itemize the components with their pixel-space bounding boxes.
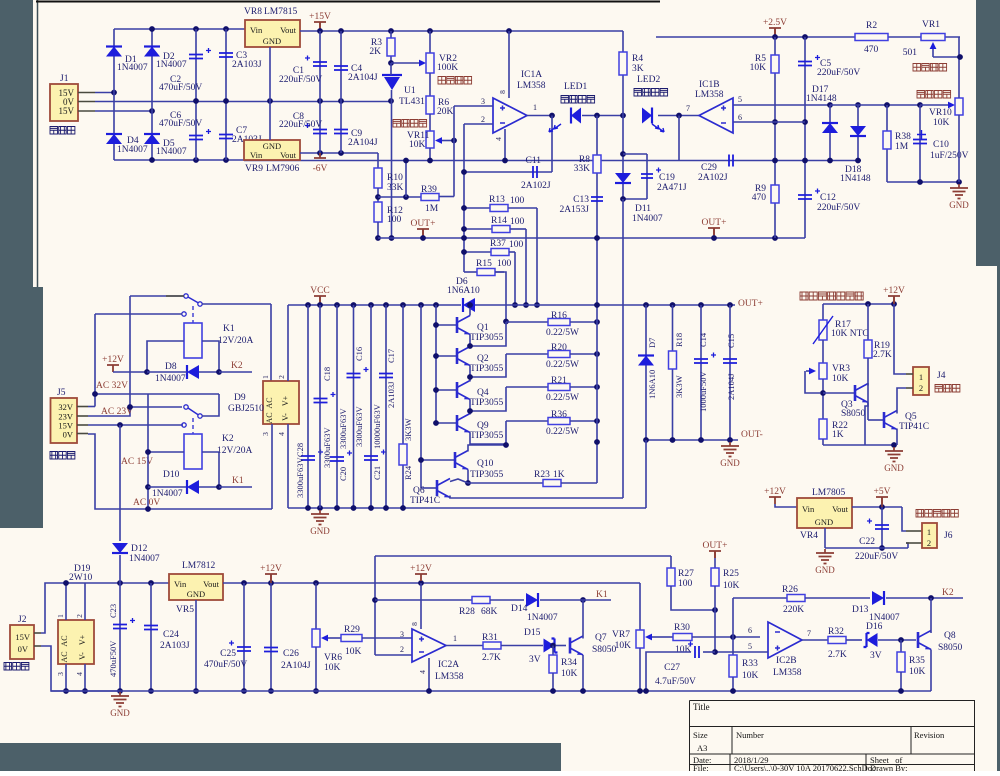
- net label K1 wire: [219, 486, 252, 488]
- svg-text:100: 100: [387, 215, 402, 225]
- svg-text:C20: C20: [338, 467, 348, 481]
- svg-text:K2: K2: [222, 434, 234, 444]
- svg-text:Title: Title: [693, 702, 710, 712]
- capacitor C5 220uF/50V: [804, 37, 806, 238]
- svg-text:V+: V+: [78, 634, 87, 645]
- potentiometer VR6 10K: [315, 583, 317, 629]
- capacitor C29 2A102J feedback: [678, 116, 680, 161]
- svg-text:2A102J: 2A102J: [698, 173, 728, 183]
- svg-text:7: 7: [807, 629, 811, 638]
- resistor R39 1M: [378, 196, 421, 198]
- svg-text:4: 4: [494, 137, 503, 141]
- svg-text:Vin: Vin: [174, 579, 187, 589]
- comment current-set: [438, 77, 472, 85]
- wire bridge left column: [113, 29, 115, 160]
- node R10-R12-R39: [377, 188, 379, 202]
- svg-text:220uF/50V: 220uF/50V: [855, 552, 898, 562]
- wire Q5 collector to J4 pin2: [897, 388, 906, 414]
- svg-text:C17: C17: [386, 349, 396, 363]
- svg-text:+5V: +5V: [874, 487, 891, 497]
- capacitor C1 220uF/50V: [319, 31, 321, 101]
- svg-text:R34: R34: [561, 658, 577, 668]
- wire Q4 collector: [469, 377, 471, 382]
- LED1 comment constant-current: [561, 96, 595, 104]
- svg-text:TL431: TL431: [399, 97, 425, 107]
- svg-text:Size: Size: [693, 730, 708, 740]
- wire +18V rail to LM7812: [85, 582, 169, 584]
- transistor Q2 TIP3055: [436, 355, 457, 357]
- resistor R25 10K: [714, 551, 716, 558]
- svg-text:TIP3055: TIP3055: [470, 431, 504, 441]
- wire OUT+ sense column: [596, 238, 598, 483]
- svg-text:470uF/50V: 470uF/50V: [204, 660, 247, 670]
- svg-text:2A104J: 2A104J: [281, 661, 311, 671]
- svg-text:+12V: +12V: [260, 564, 282, 574]
- svg-text:2A103J: 2A103J: [160, 641, 190, 651]
- svg-text:220uF/50V: 220uF/50V: [279, 75, 322, 85]
- pin 5 wire: [733, 104, 830, 106]
- svg-text:10K: 10K: [675, 645, 692, 655]
- diode D18 1N4148: [855, 102, 861, 108]
- resistor R4 3K: [622, 31, 624, 116]
- svg-text:C12: C12: [820, 193, 836, 203]
- op-amp IC1A LM358: [493, 98, 527, 133]
- svg-text:3: 3: [261, 432, 270, 436]
- capacitor C6 470uF/50V: [195, 101, 197, 160]
- svg-text:1N4148: 1N4148: [840, 174, 871, 184]
- svg-text:C24: C24: [163, 630, 179, 640]
- svg-text:V-: V-: [281, 413, 290, 421]
- svg-text:GND: GND: [815, 565, 835, 575]
- pin 4 supply wire: [504, 129, 506, 161]
- svg-text:Vout: Vout: [280, 150, 297, 160]
- svg-text:+2.5V: +2.5V: [763, 18, 787, 28]
- node R34 top: [550, 643, 556, 649]
- resistor R35 10K: [900, 640, 902, 652]
- power port +12V IC2A: [415, 574, 427, 581]
- wire R4 col down to D11: [622, 116, 624, 200]
- svg-text:OUT+: OUT+: [738, 299, 763, 309]
- wire VR9 Vout row -6V: [300, 152, 378, 154]
- capacitor C8 220uF/50V: [319, 101, 321, 153]
- svg-text:R16: R16: [551, 311, 567, 321]
- svg-text:+12V: +12V: [883, 286, 905, 296]
- wire Q4 emitter path: [470, 387, 506, 411]
- svg-text:-6V: -6V: [313, 164, 328, 174]
- svg-text:LM7906: LM7906: [266, 164, 300, 174]
- potentiometer VR11 10K: [429, 114, 431, 131]
- dark canvas region left: [0, 0, 43, 528]
- wire J5 32V pin: [77, 406, 88, 408]
- svg-text:4: 4: [418, 670, 427, 674]
- svg-text:2: 2: [75, 614, 84, 618]
- svg-text:2A104J: 2A104J: [726, 373, 736, 400]
- svg-text:2A471J: 2A471J: [657, 183, 687, 193]
- svg-text:33K: 33K: [387, 183, 404, 193]
- svg-text:2K: 2K: [369, 47, 381, 57]
- ground GND 7805: [816, 549, 834, 564]
- wire R13 col to rail: [536, 208, 538, 305]
- svg-text:R38: R38: [895, 132, 911, 142]
- svg-text:GND: GND: [949, 200, 969, 210]
- potentiometer VR3 10K: [822, 340, 824, 363]
- wire OUT- rail: [646, 439, 738, 441]
- svg-text:0.22/5W: 0.22/5W: [546, 360, 579, 370]
- wire K2 coil left: [148, 451, 184, 453]
- LED2 comment constant-voltage: [634, 89, 668, 97]
- wire OUT+ rail upper: [475, 304, 735, 306]
- svg-text:D9: D9: [234, 393, 246, 403]
- wire J4 pin2 stub: [906, 387, 913, 389]
- node R9 bottom: [772, 235, 778, 241]
- K1 linkage dashed: [192, 306, 194, 323]
- wire R37 col to rail: [514, 252, 516, 305]
- svg-text:K2: K2: [231, 361, 243, 371]
- svg-text:Vin: Vin: [802, 504, 815, 514]
- svg-text:AC 32V: AC 32V: [96, 381, 128, 391]
- potentiometer VR7 10K: [639, 583, 641, 630]
- wire bottom rail -18V unreg: [114, 159, 244, 161]
- wire D9 pin3: [271, 424, 273, 509]
- wire Q7 emitter: [582, 655, 584, 691]
- capacitor C10 1uF/250V: [917, 102, 923, 108]
- svg-text:AC: AC: [60, 651, 69, 662]
- svg-text:OUT-: OUT-: [741, 430, 763, 440]
- svg-text:3300uF63V: 3300uF63V: [354, 406, 364, 447]
- wire K2 coil right: [202, 451, 219, 453]
- svg-text:5: 5: [748, 642, 752, 651]
- wire D19 pin4: [84, 664, 86, 691]
- comment NTC thermistor: [800, 292, 863, 300]
- svg-text:10K: 10K: [561, 669, 578, 679]
- svg-text:10K: 10K: [409, 140, 426, 150]
- svg-text:2: 2: [919, 383, 923, 393]
- node R25/R27: [712, 607, 718, 613]
- wire Q2 collector: [469, 346, 471, 348]
- svg-text:100: 100: [510, 196, 525, 206]
- svg-text:Q1: Q1: [477, 323, 489, 333]
- pin 3 wire: [454, 105, 493, 107]
- wire Q3 collector: [867, 383, 869, 386]
- power port +12V bottom-left: [265, 574, 277, 581]
- svg-text:TIP3055: TIP3055: [470, 364, 504, 374]
- svg-text:U1: U1: [404, 86, 416, 96]
- diode D5 1N4007: [144, 134, 160, 144]
- svg-text:0V: 0V: [63, 430, 74, 440]
- svg-text:2A104J: 2A104J: [348, 73, 378, 83]
- wire R27 feed: [670, 556, 672, 568]
- connector J5: [51, 398, 78, 443]
- wire J1 pin1 to bridge: [78, 92, 95, 94]
- LED2 indicator: [642, 108, 652, 124]
- svg-text:R20: R20: [551, 343, 567, 353]
- svg-text:C22: C22: [859, 537, 875, 547]
- svg-text:LM7812: LM7812: [182, 561, 216, 571]
- K2 linkage dashed: [192, 418, 194, 434]
- wire driver column: [420, 305, 422, 488]
- wire top rail +18V unreg: [114, 28, 245, 30]
- resistor R22 1K: [819, 419, 827, 439]
- comment voltage-set: [913, 64, 947, 72]
- svg-text:100: 100: [678, 579, 693, 589]
- relay contact K2: [184, 405, 188, 409]
- svg-text:AC: AC: [60, 635, 69, 646]
- pin 2 wire IC2A: [375, 654, 412, 656]
- svg-text:VR3: VR3: [832, 364, 850, 374]
- wire VR11 bottom to -6V rail: [429, 148, 431, 161]
- wire K1 coil left: [147, 341, 184, 372]
- bridge rectifier D9 GBJ2510: [263, 381, 299, 424]
- svg-text:Q7: Q7: [595, 633, 607, 643]
- zener D16 3V: [867, 633, 878, 647]
- wire LED1 row: [582, 115, 623, 117]
- svg-text:R35: R35: [909, 656, 925, 666]
- wire OUT+ rail: [378, 237, 805, 239]
- wire J1 pin2 0V rail: [78, 101, 95, 103]
- wire J2 0V pin: [34, 645, 41, 647]
- capacitor C7 2A103J: [225, 101, 227, 160]
- svg-text:Vout: Vout: [832, 504, 849, 514]
- svg-text:Vin: Vin: [250, 25, 263, 35]
- transistor Q10 TIP3055: [421, 459, 455, 461]
- diode D4 1N4007: [106, 134, 122, 144]
- svg-text:3300uF63V: 3300uF63V: [338, 408, 348, 449]
- svg-text:220uF/50V: 220uF/50V: [279, 120, 322, 130]
- svg-text:J5: J5: [57, 388, 66, 398]
- capacitor C23 470uF50V: [119, 583, 121, 691]
- wire R38/C10 bottom row: [887, 181, 959, 183]
- wire D19 pin1: [65, 583, 67, 620]
- wire J4 pin1: [906, 373, 913, 375]
- svg-text:1N4007: 1N4007: [129, 554, 160, 564]
- svg-text:1N4148: 1N4148: [806, 94, 837, 104]
- capacitor C4 2A104J: [340, 31, 342, 101]
- capacitor C27 4.7uF/50V: [703, 651, 715, 653]
- potentiometer VR2 100K: [429, 31, 431, 53]
- pin 4 wire IC2A: [428, 658, 430, 691]
- resistor R36 0.22/5W: [506, 420, 548, 422]
- wire Q10 collector to Q9 emitter node: [468, 445, 506, 452]
- svg-text:VR5: VR5: [176, 605, 194, 615]
- svg-text:Q5: Q5: [905, 412, 917, 422]
- wire to J6 pin2: [906, 543, 908, 548]
- svg-text:470uF/50V: 470uF/50V: [159, 83, 202, 93]
- capacitor C18 3300uF63V: [319, 305, 321, 508]
- resistor R23 1K: [468, 482, 543, 484]
- svg-text:IC2A: IC2A: [438, 660, 459, 670]
- relay contact K1: [130, 295, 184, 297]
- svg-text:+12V: +12V: [410, 564, 432, 574]
- svg-text:4.7uF/50V: 4.7uF/50V: [655, 677, 696, 687]
- node pin5/C27: [712, 649, 718, 655]
- node AC15V tap: [117, 422, 123, 428]
- svg-text:R33: R33: [742, 659, 758, 669]
- svg-text:R29: R29: [344, 625, 360, 635]
- wire J5 15V pin: [77, 424, 88, 426]
- comment voltage-adjust: [917, 91, 951, 99]
- svg-text:D13: D13: [852, 605, 869, 615]
- wire D11 col down to Q6 emitter return: [622, 199, 624, 498]
- pin 8 supply wire: [508, 31, 510, 98]
- svg-text:12V/20A: 12V/20A: [218, 336, 254, 346]
- wire 32V feed to K1 NC: [95, 313, 182, 315]
- svg-text:C21: C21: [372, 466, 382, 480]
- wire Q2 emitter path: [470, 354, 506, 377]
- svg-text:TIP3055: TIP3055: [470, 333, 504, 343]
- svg-text:Number: Number: [736, 730, 764, 740]
- pin 1 output wire IC2A: [446, 645, 483, 647]
- power port VCC: [314, 296, 326, 303]
- resistor R5 10K: [774, 37, 776, 238]
- svg-text:VCC: VCC: [310, 286, 330, 296]
- svg-text:GND: GND: [263, 141, 281, 151]
- diode D1 1N4007: [106, 47, 122, 57]
- svg-text:LM358: LM358: [773, 668, 802, 678]
- capacitor C25 470uF/50V: [243, 583, 245, 691]
- capacitor C12 220uF/50V: [798, 195, 812, 199]
- svg-text:1: 1: [533, 103, 537, 112]
- svg-text:8: 8: [498, 90, 507, 94]
- pin 2 feedback column: [463, 124, 465, 272]
- svg-text:C:\Users\..\0-30V 10A 2017062: C:\Users\..\0-30V 10A 20170622.SchDoc: [734, 763, 876, 771]
- wire +5V bottom row: [825, 547, 908, 549]
- svg-text:R27: R27: [678, 569, 694, 579]
- resistor R2 470: [855, 34, 888, 41]
- ground GND OUT-: [721, 442, 739, 457]
- diode D2 1N4007: [144, 47, 160, 57]
- wire K1 coil right: [202, 341, 219, 372]
- node OUT+ rail crossing: [461, 235, 467, 241]
- diode D6 1N6A10: [463, 298, 475, 312]
- node IC1B output feedback: [676, 113, 682, 119]
- power port OUT+ mid: [708, 228, 720, 235]
- svg-text:3: 3: [56, 672, 65, 676]
- resistor R34 10K: [552, 646, 554, 656]
- resistor R33 10K: [732, 637, 734, 655]
- svg-text:R18: R18: [674, 333, 684, 347]
- svg-text:R23: R23: [534, 470, 550, 480]
- resistor R8 33K: [596, 116, 598, 239]
- svg-text:1N4007: 1N4007: [527, 613, 558, 623]
- node junction D2/D5 column: [149, 108, 155, 114]
- node R8 column top: [594, 113, 600, 119]
- node R12 bottom on OUT+ rail: [375, 235, 381, 241]
- svg-text:GND: GND: [884, 463, 904, 473]
- diode D12 1N4007: [119, 425, 121, 541]
- ground GND cap bank: [317, 505, 323, 511]
- node VR3 bottom: [822, 379, 824, 419]
- svg-text:GND: GND: [815, 517, 833, 527]
- VR3 wiper: [805, 371, 820, 393]
- node C11 row to pin2 column: [461, 169, 467, 175]
- node R4 column: [620, 113, 626, 119]
- svg-text:C27: C27: [664, 663, 680, 673]
- diode D7 1N6A10: [643, 302, 649, 308]
- svg-text:VR4: VR4: [800, 531, 818, 541]
- svg-text:3: 3: [400, 630, 404, 639]
- svg-text:D8: D8: [165, 362, 177, 372]
- svg-text:2A102J: 2A102J: [521, 181, 551, 191]
- svg-text:LM358: LM358: [435, 672, 464, 682]
- svg-text:R36: R36: [551, 410, 567, 420]
- svg-text:0.22/5W: 0.22/5W: [546, 328, 579, 338]
- svg-text:3K: 3K: [632, 64, 644, 74]
- svg-text:Vout: Vout: [203, 579, 220, 589]
- resistor R30 10K: [660, 636, 673, 638]
- svg-text:0.22/5W: 0.22/5W: [546, 393, 579, 403]
- power port +12V fan: [888, 296, 900, 303]
- svg-text:2A103J: 2A103J: [386, 381, 396, 408]
- svg-text:D12: D12: [131, 544, 148, 554]
- node D8-K1coil: [216, 369, 222, 375]
- wire x375 column: [374, 556, 376, 655]
- resistor R26 220K: [732, 598, 734, 637]
- svg-text:S8050: S8050: [938, 643, 963, 653]
- svg-text:470uF50V: 470uF50V: [108, 640, 118, 677]
- svg-text:470: 470: [864, 45, 879, 55]
- svg-text:Q8: Q8: [944, 631, 956, 641]
- svg-text:10K: 10K: [933, 118, 950, 128]
- svg-text:7: 7: [686, 104, 690, 113]
- svg-text:8: 8: [410, 622, 419, 626]
- wire VR8 GND pin: [269, 47, 271, 101]
- wire D19 pin3: [65, 664, 67, 691]
- svg-text:2A153J: 2A153J: [559, 205, 589, 215]
- node D11 bottom: [620, 196, 626, 202]
- wire wiper node to IC1A pin3: [453, 106, 455, 197]
- svg-text:220uF/50V: 220uF/50V: [817, 68, 860, 78]
- svg-text:+15V: +15V: [309, 12, 331, 22]
- power port OUT+ left: [417, 229, 429, 236]
- wire J5 32V column: [94, 314, 96, 407]
- svg-text:1N4007: 1N4007: [152, 489, 183, 499]
- svg-text:2.7K: 2.7K: [482, 653, 501, 663]
- svg-text:V+: V+: [281, 395, 290, 406]
- svg-text:LED1: LED1: [564, 82, 587, 92]
- svg-text:D7: D7: [647, 338, 657, 348]
- comment current-adjust: [393, 120, 427, 128]
- svg-text:1M: 1M: [895, 142, 909, 152]
- wire VR4 Vout: [852, 506, 902, 508]
- regulator VR8 LM7815: [245, 20, 300, 47]
- wire Q8 collector: [930, 598, 932, 633]
- wire bottom row fan block: [823, 444, 894, 446]
- svg-text:C14: C14: [698, 332, 708, 347]
- resistor R24 3K3W: [402, 305, 404, 508]
- svg-text:D10: D10: [163, 470, 180, 480]
- dark canvas region top-right: [976, 0, 1000, 771]
- svg-text:1N6A10: 1N6A10: [647, 370, 657, 399]
- capacitor C21 10000uF63V: [370, 305, 372, 508]
- svg-text:R32: R32: [828, 627, 844, 637]
- svg-text:OUT+: OUT+: [702, 218, 727, 228]
- svg-text:GND: GND: [720, 458, 740, 468]
- svg-text:V-: V-: [78, 652, 87, 660]
- pin 7 output IC2B: [802, 639, 828, 641]
- J1 comment (transformer): [50, 127, 75, 135]
- wire bridge right column: [151, 29, 153, 160]
- svg-text:Q6: Q6: [413, 486, 425, 496]
- node R39 left: [403, 194, 409, 200]
- svg-text:2A104J: 2A104J: [348, 138, 378, 148]
- node K2 drive: [928, 595, 934, 601]
- diode D8 1N4007: [144, 369, 150, 375]
- wire K1 t1 column: [129, 296, 131, 407]
- node pin6 row: [772, 119, 778, 125]
- svg-text:AC: AC: [265, 412, 274, 423]
- resistor R38 1M: [884, 102, 890, 108]
- node VCC rail dots: [305, 302, 311, 308]
